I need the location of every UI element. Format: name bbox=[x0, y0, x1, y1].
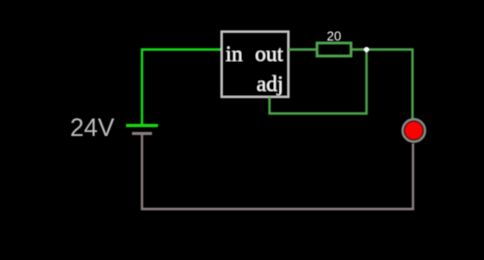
battery V1 negative plate bbox=[132, 132, 152, 135]
regulator U1 box bbox=[222, 32, 289, 98]
LED D1 lit body bbox=[405, 122, 423, 140]
svg-text:adj: adj bbox=[257, 71, 284, 96]
wire battery+ to regulator in bbox=[142, 50, 221, 125]
svg-text:24V: 24V bbox=[70, 114, 115, 142]
resistor R1 bbox=[317, 43, 351, 56]
ground return wire bbox=[142, 135, 413, 209]
wire resistor to corner bbox=[351, 50, 413, 119]
wire adj feedback loop bbox=[270, 50, 367, 114]
svg-text:out: out bbox=[255, 41, 283, 66]
battery V1 positive plate bbox=[126, 124, 158, 127]
LED D1 ring bbox=[403, 119, 426, 142]
node junction dot bbox=[364, 47, 369, 52]
svg-text:20: 20 bbox=[327, 29, 341, 44]
wire out to resistor bbox=[289, 48, 318, 50]
svg-text:in: in bbox=[226, 41, 243, 66]
